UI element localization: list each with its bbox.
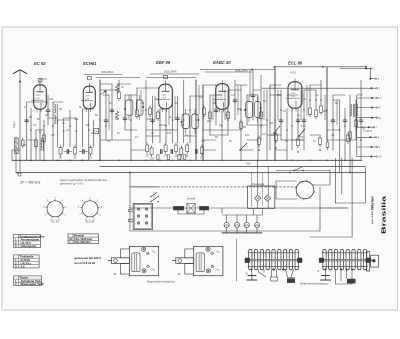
- terminal 6: [371, 116, 381, 120]
- rectifier: [255, 195, 261, 201]
- tube top cap EC92: [38, 79, 42, 82]
- coil pack A: [245, 249, 303, 269]
- coil: [350, 104, 352, 116]
- resistor Rx5: [326, 140, 329, 150]
- zigzag coil a: [115, 84, 118, 93]
- wire EC92 top link: [40, 79, 47, 82]
- junction dots scatter: [26, 83, 362, 141]
- svg-text:215V: 215V: [36, 95, 41, 97]
- wire to terminal 1: [340, 68, 366, 70]
- dial lamp: [254, 222, 259, 227]
- table voltages: [14, 234, 45, 248]
- table ranges: [68, 234, 99, 244]
- wire right verticals down: [335, 158, 365, 237]
- switch S3: [298, 129, 305, 137]
- capacitor C8: [214, 108, 218, 114]
- svg-text:EC 92: EC 92: [34, 61, 46, 66]
- table keys: [14, 276, 44, 286]
- svg-text:1,9V: 1,9V: [218, 97, 223, 99]
- capacitor pair c: [161, 150, 162, 154]
- svg-text:4Y51: 4Y51: [290, 71, 297, 75]
- antenna: [14, 70, 27, 173]
- dial lamp: [234, 222, 239, 227]
- wire filter underlink: [178, 210, 204, 214]
- wire mid right link: [320, 207, 348, 209]
- wire rail ECH stage: [84, 74, 122, 76]
- svg-text:0,1: 0,1: [89, 156, 93, 160]
- terminal 10: [370, 155, 382, 159]
- capacitor C6: [151, 118, 155, 124]
- svg-text:30k: 30k: [269, 121, 274, 125]
- rectifier: [264, 195, 270, 201]
- svg-text:Magnetsystemkupplung: Magnetsystemkupplung: [147, 280, 175, 284]
- dial lamp: [244, 222, 249, 227]
- dial lamps rail: [227, 215, 257, 222]
- svg-text:1,9V: 1,9V: [36, 98, 41, 100]
- wire heater rail dashed: [158, 186, 296, 188]
- svg-text:Werner: Werner: [370, 195, 374, 210]
- svg-text:1M: 1M: [150, 157, 154, 161]
- capacitor C13: [302, 118, 306, 124]
- IF transformer Fi2: [181, 109, 200, 133]
- wire rectifier feeders: [252, 160, 269, 186]
- svg-text:ZF = 452 kHz: ZF = 452 kHz: [20, 181, 41, 185]
- svg-text:5,0: 5,0: [21, 265, 25, 269]
- svg-text:gemessen bei 220 V: gemessen bei 220 V: [75, 256, 102, 260]
- resistor R30: [349, 130, 352, 141]
- coil pack B: [319, 249, 371, 269]
- svg-text:0,2: 0,2: [199, 95, 203, 99]
- svg-text:050L/294A: 050L/294A: [164, 70, 177, 74]
- tube ECL 86 envelope: [288, 82, 302, 108]
- svg-text:B: B: [246, 272, 248, 276]
- resistor R22: [227, 110, 230, 121]
- wire top rail EABC stage: [200, 69, 275, 71]
- resistor R29: [355, 118, 358, 129]
- tube EC 92 envelope: [34, 85, 47, 109]
- resistor R2: [74, 145, 77, 156]
- wire rail ECH stage 2: [96, 77, 140, 79]
- resistor R4: [146, 143, 149, 154]
- wire rail EABC stage 2: [205, 71, 252, 73]
- svg-text:L: L: [70, 240, 72, 244]
- tube socket EC92 bottom view: [43, 197, 68, 223]
- wire verticals group C (EABC stage): [203, 70, 267, 160]
- wire terminal 1-2 link: [366, 69, 370, 79]
- wire ground bus: [12, 159, 362, 161]
- component value labels group 1: [23, 85, 338, 147]
- wire top rail ECL stage: [275, 66, 367, 68]
- wire verticals group B (EBF stage): [100, 80, 196, 160]
- svg-text:1,9V: 1,9V: [291, 96, 296, 98]
- capacitor C4: [110, 108, 114, 114]
- wire verticals group A (EC92 stage): [12, 95, 94, 173]
- wire circle links: [276, 181, 297, 199]
- resistor Ra: [22, 138, 25, 148]
- svg-text:ZF: ZF: [114, 272, 118, 276]
- wire feeder verticals bold: [100, 67, 327, 160]
- svg-text:LSP 8: LSP 8: [365, 129, 373, 133]
- svg-text:0,4: 0,4: [201, 139, 205, 143]
- zigzag coil b: [115, 111, 118, 120]
- svg-text:TA: TA: [94, 130, 97, 134]
- resistor Rx4: [319, 136, 322, 147]
- labels mid right: [246, 124, 306, 166]
- junction dots mid right: [258, 147, 321, 153]
- svg-text:4,5V: 4,5V: [301, 124, 307, 128]
- terminal 9: [370, 145, 380, 149]
- svg-text:40n: 40n: [207, 119, 212, 123]
- resistor R18: [149, 106, 152, 117]
- tube EABC 80 envelope: [216, 84, 229, 110]
- resistor R27: [320, 104, 323, 115]
- svg-text:30p: 30p: [74, 117, 79, 121]
- svg-text:0,3: 0,3: [262, 132, 266, 136]
- capacitor C11: [279, 118, 283, 124]
- wire verticals group D (ECL stage): [270, 67, 361, 173]
- svg-text:ECL 86: ECL 86: [288, 61, 303, 66]
- coil pack A leads: [247, 269, 295, 283]
- wire lamps bottom bus: [222, 232, 262, 234]
- IF can drawing 1: [108, 246, 159, 276]
- coil oscillator L2: [54, 104, 57, 124]
- resistor sub row: [157, 155, 159, 160]
- svg-text:Zweiweggl.: Zweiweggl.: [252, 182, 265, 186]
- svg-text:Wellenbereichschaltung: Wellenbereichschaltung: [300, 282, 328, 286]
- resistor R21: [209, 110, 212, 121]
- wire power box outline: [130, 173, 320, 232]
- tube top cap ECH81: [88, 76, 92, 79]
- svg-text:0,2: 0,2: [33, 123, 37, 127]
- switch: [150, 193, 159, 198]
- mains filter cap box: [187, 197, 195, 214]
- capacitor C7: [176, 116, 180, 122]
- svg-text:bei m=0,8 10 W: bei m=0,8 10 W: [75, 261, 95, 265]
- svg-text:25p: 25p: [45, 113, 50, 117]
- resistor Rx3: [297, 137, 300, 148]
- capacitor C16: [359, 118, 363, 124]
- IF transformer Fi3: [244, 97, 261, 123]
- wire bus 3: [16, 172, 365, 174]
- IF transformer Fi1: [124, 95, 144, 120]
- tuning arrow: [100, 91, 106, 95]
- switch S1: [239, 143, 247, 151]
- svg-text:43V: 43V: [246, 162, 251, 166]
- capacitor C12: [296, 118, 300, 124]
- resistor R7: [175, 143, 178, 154]
- coil box KW: [15, 138, 19, 154]
- mains filter choke 1: [173, 206, 184, 210]
- terminal 5: [371, 106, 381, 110]
- svg-text:Entstör: Entstör: [187, 197, 195, 201]
- capacitor C9: [233, 98, 237, 104]
- mains filter choke 2: [199, 206, 209, 210]
- capacitor C3: [104, 118, 108, 124]
- svg-text:1M: 1M: [85, 123, 89, 127]
- capacitor pair e: [196, 150, 197, 154]
- svg-text:10k: 10k: [49, 97, 54, 101]
- svg-text:100: 100: [161, 123, 166, 127]
- capacitor pair d: [171, 150, 172, 154]
- resistor R1: [59, 145, 62, 156]
- wire extra verticals: [109, 70, 337, 130]
- resistor R16: [118, 90, 121, 101]
- label box TA: [94, 129, 99, 134]
- resistor Rx1: [258, 136, 261, 147]
- svg-text:ECH81: ECH81: [83, 61, 97, 66]
- svg-text:ZF: ZF: [178, 272, 182, 276]
- ground loop antenna: [16, 173, 21, 177]
- coil: [54, 115, 56, 124]
- resistor R9: [186, 143, 189, 154]
- dial lamp: [224, 222, 229, 227]
- svg-text:B: B: [318, 269, 320, 273]
- resistor R23: [240, 120, 243, 131]
- switch: [150, 198, 159, 203]
- terminal 8: [369, 136, 379, 140]
- svg-text:1,9V: 1,9V: [85, 98, 90, 100]
- divider line bottom: [235, 239, 237, 281]
- svg-text:150–350 kHz: 150–350 kHz: [74, 240, 91, 244]
- wire rail EBF stage 2: [146, 77, 196, 79]
- terminal 2: [369, 77, 379, 81]
- svg-text:EBF 89: EBF 89: [156, 60, 171, 65]
- resistor R25: [309, 106, 312, 117]
- terminal 3: [370, 86, 380, 90]
- capacitor C1: [25, 118, 29, 124]
- svg-text:10n: 10n: [245, 133, 250, 137]
- svg-text:215V: 215V: [218, 94, 223, 96]
- svg-text:10k: 10k: [175, 154, 180, 158]
- wire filter out hook: [221, 208, 223, 213]
- tube ECL 86 electrodes: [286, 79, 299, 111]
- capacitor C15: [343, 118, 347, 124]
- svg-text:Gitterspann.: Gitterspann.: [21, 244, 38, 248]
- wire rail EBF stage: [150, 73, 199, 75]
- svg-text:0,5M: 0,5M: [103, 93, 109, 97]
- tube ECH81 envelope: [83, 86, 95, 109]
- tube EBF 89 envelope: [159, 84, 173, 109]
- svg-text:150: 150: [299, 135, 304, 139]
- svg-text:15k: 15k: [167, 131, 172, 135]
- capacitor pair b: [83, 150, 84, 154]
- capacitor C2: [46, 108, 50, 114]
- svg-text:Brasilia: Brasilia: [382, 196, 388, 234]
- resistor R10: [201, 145, 204, 156]
- wire speaker box bottom: [335, 202, 365, 204]
- resistor Rx2: [275, 132, 278, 143]
- resistor R24: [260, 110, 263, 121]
- output transformer: [350, 104, 358, 117]
- capacitor pair a: [67, 150, 68, 154]
- resistor R5: [150, 146, 153, 157]
- svg-text:2M: 2M: [213, 101, 217, 105]
- resistor R8: [180, 146, 183, 157]
- terminal 1: [365, 67, 375, 71]
- capacitor C14: [331, 118, 335, 124]
- wire extra horizontal links: [12, 84, 340, 150]
- table currents: [14, 255, 40, 269]
- resistor R19: [157, 110, 160, 121]
- svg-text:0,3: 0,3: [231, 93, 235, 97]
- wire links row: [27, 84, 356, 140]
- switch link dashed: [153, 192, 155, 200]
- coil: [54, 104, 56, 113]
- terminal 7: [368, 125, 378, 129]
- svg-text:EABC 80: EABC 80: [213, 60, 231, 65]
- coil antenna L1: [41, 138, 44, 151]
- wire power box inner rail: [130, 207, 348, 209]
- resistor R3: [89, 145, 92, 156]
- tube EC 92 electrodes: [32, 82, 44, 112]
- tube ECH81 electrodes: [81, 83, 93, 112]
- IF can drawing 2: [172, 246, 223, 276]
- svg-text:0,1: 0,1: [66, 128, 70, 132]
- resistor R17: [136, 108, 139, 119]
- speaker socket circle: [295, 180, 315, 200]
- svg-text:050L/294A: 050L/294A: [235, 69, 248, 73]
- rectifier box: [248, 182, 275, 208]
- resistor R30: [35, 138, 38, 149]
- resistor R28: [347, 133, 350, 144]
- svg-text:0,1: 0,1: [141, 101, 145, 105]
- switch S2: [273, 126, 280, 134]
- resistor R6: [164, 143, 167, 154]
- coil pack B leads: [321, 269, 356, 285]
- svg-text:0,2: 0,2: [201, 156, 205, 160]
- resistor R26: [315, 108, 318, 119]
- resistor R31: [43, 133, 46, 144]
- svg-text:Diod: Diod: [358, 93, 364, 97]
- svg-text:0,1: 0,1: [263, 99, 267, 103]
- terminal 4: [371, 96, 381, 100]
- coil: [41, 138, 43, 150]
- wire vertical feeder right: [356, 95, 358, 157]
- mains connector block: [129, 203, 153, 229]
- svg-text:0,2: 0,2: [135, 135, 139, 139]
- capacitor C10: [251, 93, 255, 99]
- svg-text:(ab Nr. 50 451): (ab Nr. 50 451): [371, 211, 374, 224]
- tube EBF 89 electrodes: [157, 81, 170, 112]
- svg-text:1,9V: 1,9V: [161, 97, 166, 99]
- svg-text:0,1: 0,1: [331, 133, 335, 137]
- wire bus 2: [100, 166, 365, 168]
- svg-text:215V: 215V: [161, 94, 166, 96]
- wire Ta/Tb switch rail: [276, 170, 330, 172]
- switch: [293, 167, 304, 171]
- coil pack B end bracket: [367, 252, 379, 272]
- wire lower link: [310, 236, 352, 238]
- svg-text:0,5: 0,5: [51, 133, 55, 137]
- svg-text:Wiedergabe Ta/W: Wiedergabe Ta/W: [21, 282, 44, 286]
- svg-text:059L/294A: 059L/294A: [101, 70, 114, 74]
- svg-text:215V: 215V: [85, 95, 90, 97]
- svg-text:Spannungsangaben mit Röhrenvol: Spannungsangaben mit Röhrenvoltmeter: [60, 178, 107, 182]
- tube socket ECH81 bottom view: [78, 197, 103, 223]
- resistor R20: [203, 106, 206, 117]
- svg-text:25k: 25k: [147, 117, 152, 121]
- svg-text:0,2: 0,2: [315, 93, 319, 97]
- svg-text:215V: 215V: [291, 93, 296, 95]
- tube top cap EBF89: [164, 75, 168, 78]
- coil: [356, 104, 358, 116]
- wire rectifier to lamps: [254, 208, 263, 215]
- capacitor C5: [123, 116, 127, 122]
- svg-text:gemessen (g = 0 V): gemessen (g = 0 V): [60, 182, 83, 186]
- wire heater rail: [130, 186, 158, 188]
- wire to terminal 3: [262, 87, 371, 89]
- wire lamp feed: [222, 214, 262, 216]
- svg-text:0,5µF: 0,5µF: [13, 121, 16, 128]
- tube EABC 80 electrodes: [214, 81, 227, 113]
